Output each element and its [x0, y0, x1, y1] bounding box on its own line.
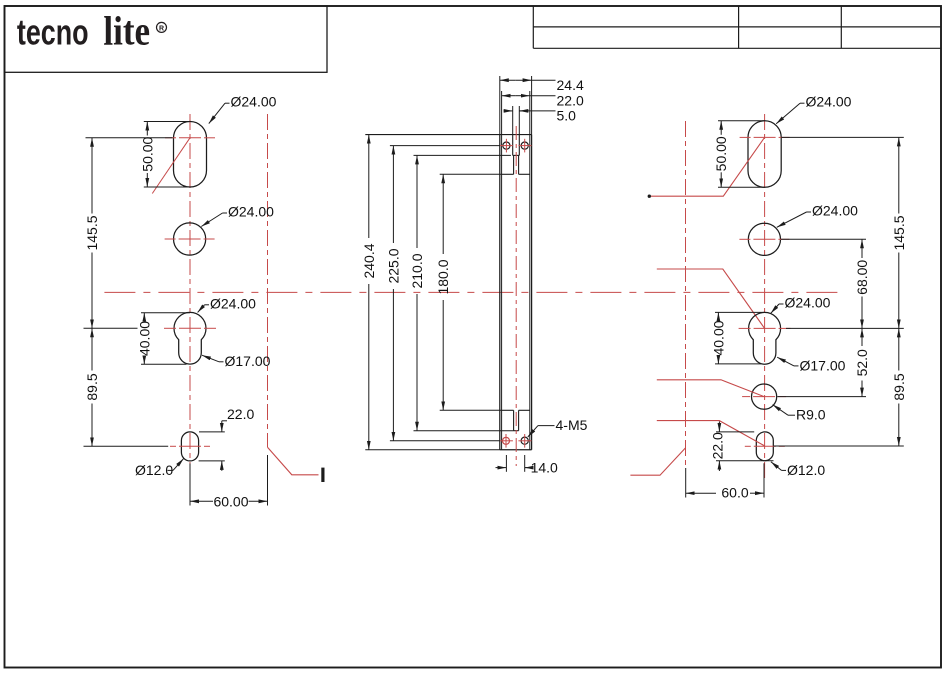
middle dim 240.4 line: [368, 135, 370, 238]
svg-text:Ø24.00: Ø24.00: [228, 204, 274, 220]
right dim 60.0 line: [686, 492, 716, 494]
middle M5 bottom centerlines: [500, 440, 513, 442]
right slot top centerline cross: [740, 136, 751, 138]
svg-text:145.5: 145.5: [84, 215, 100, 250]
left keyhole slot 24/17: [174, 312, 206, 364]
right keyhole slot 24/17: [749, 312, 781, 364]
right dim 50.00 extension lines: [718, 120, 765, 122]
left dim 145.5 line with arrows: [91, 138, 93, 214]
left keyhole centerline cross: [164, 327, 176, 329]
left dim 145.5 extension top: [86, 137, 173, 139]
logo title box: [5, 6, 328, 72]
left circle hole 24: [174, 223, 206, 255]
svg-text:89.5: 89.5: [891, 373, 907, 400]
middle view top slot: [512, 135, 514, 156]
middle dim 5.0 extension lines: [512, 106, 514, 135]
main horizontal centerline axis: [104, 291, 840, 293]
middle dim 180.0 extensions: [440, 173, 502, 175]
svg-text:4-M5: 4-M5: [556, 417, 588, 433]
svg-text:210.0: 210.0: [409, 253, 425, 288]
middle view top ledges: [502, 173, 514, 175]
right black dot: [648, 195, 651, 198]
svg-text:R9.0: R9.0: [796, 407, 826, 423]
svg-text:22.0: 22.0: [227, 406, 254, 422]
right dim 52.0 extension bottom: [777, 396, 866, 398]
left dim 50.00 line with arrows: [146, 122, 148, 136]
left dim 89.5 extension bottom: [84, 445, 169, 447]
middle dim 225.0 line: [392, 146, 394, 243]
left view vertical centerline: [189, 114, 191, 476]
right dim 52.0 line: [861, 328, 863, 346]
right slot hole top (obround 24x50): [748, 121, 781, 188]
left dim 89.5 line with arrows: [91, 328, 93, 370]
right dim 50.00 line: [720, 121, 722, 135]
right dim 60.0 extension lines: [685, 468, 687, 498]
left dim 40.00 extension lines: [141, 312, 190, 314]
left small slot centerline cross: [170, 445, 176, 447]
title block table: [532, 6, 534, 48]
right red leader polyline to R9: [657, 380, 764, 397]
right keyhole centerline cross: [739, 327, 751, 329]
svg-text:40.00: 40.00: [136, 321, 152, 356]
svg-text:Ø24.00: Ø24.00: [231, 94, 277, 110]
svg-text:22.0: 22.0: [557, 92, 584, 108]
right view auxiliary dashed centerline: [685, 121, 687, 466]
svg-text:50.00: 50.00: [713, 136, 729, 171]
left dim 60.00 extension lines: [189, 464, 191, 506]
right dim 40.00 extension lines: [715, 311, 765, 313]
left dim 50.00 extension lines: [144, 121, 190, 123]
left view auxiliary dashed centerline: [267, 114, 269, 447]
svg-text:40.00: 40.00: [710, 320, 726, 355]
right dim 145.5 line: [898, 137, 900, 213]
middle dim 240.4 bottom extension: [365, 449, 500, 451]
right small slot centerline cross: [745, 445, 751, 447]
right small slot 12x22: [756, 432, 773, 461]
left dim 40.00 line with arrows: [143, 313, 145, 319]
right dim 22.0 line: [718, 422, 720, 432]
middle dim 5.0 line: [504, 110, 513, 112]
left small slot 12x22: [181, 432, 198, 461]
right dim 145.5 extension mid: [786, 327, 904, 329]
middle dim 180.0 line: [442, 174, 444, 254]
left red diagonal leader to slot center: [152, 138, 190, 194]
svg-text:14.0: 14.0: [531, 460, 558, 476]
svg-text:lite: lite: [103, 9, 150, 54]
middle view outer profile: [499, 135, 501, 450]
right dim 89.5 extension bottom: [774, 445, 904, 447]
svg-text:180.0: 180.0: [435, 259, 451, 294]
left circle centerline cross: [165, 238, 176, 240]
middle M5 top centerlines: [500, 145, 513, 147]
middle M5 hole bottom-left (red): [503, 437, 510, 444]
right view vertical centerline: [764, 114, 766, 478]
right dim 89.5 line: [898, 328, 900, 370]
middle dim 225.0 extensions: [390, 145, 500, 147]
svg-text:68.00: 68.00: [854, 260, 870, 295]
middle view bottom ledges: [502, 409, 514, 411]
right dim 22.0 extension lines: [716, 431, 754, 433]
svg-text:R: R: [159, 25, 164, 32]
middle dim 14.0 extensions: [505, 455, 507, 472]
right circle centerline cross: [739, 238, 750, 240]
middle M5 hole top-left: [503, 142, 510, 149]
right dim 68.00 extension top: [781, 238, 866, 240]
right red corner polyline bottom-left: [630, 448, 685, 475]
svg-text:Ø17.00: Ø17.00: [225, 353, 271, 369]
middle view vertical centerline: [515, 126, 517, 466]
tecnolite logo text: [17, 9, 167, 54]
middle view inner walls: [501, 135, 503, 450]
svg-text:Ø24.00: Ø24.00: [806, 94, 852, 110]
middle dim 22.0 extension lines: [501, 91, 503, 135]
right red leader polyline to small slot: [657, 421, 765, 446]
middle dim 210.0 extensions: [414, 154, 511, 156]
svg-text:60.00: 60.00: [213, 493, 248, 509]
svg-text:Ø24.00: Ø24.00: [210, 296, 256, 312]
right dim 68.00 line: [861, 239, 863, 258]
left dim 89.5 extension keyhole: [84, 327, 138, 329]
middle M5 hole bottom-right: [521, 437, 528, 444]
svg-text:5.0: 5.0: [557, 108, 577, 124]
right red leader polyline to slot: [651, 137, 765, 196]
middle dim 14.0 line: [496, 467, 507, 469]
middle dim 22.0 line: [502, 95, 516, 97]
middle M5 hole top-right: [521, 142, 528, 149]
left section mark I tick: [321, 468, 324, 482]
svg-text:89.5: 89.5: [84, 373, 100, 400]
middle dim 24.4 line: [500, 79, 516, 81]
left slot top centerline cross: [165, 137, 176, 139]
left dim 60.00 line with arrows: [190, 500, 213, 502]
left section mark red polyline: [268, 447, 319, 475]
left dim 22.0 bracket: [222, 420, 227, 422]
right red leader polyline to keyhole: [657, 269, 765, 328]
svg-text:240.4: 240.4: [361, 243, 377, 278]
svg-text:225.0: 225.0: [385, 248, 401, 283]
middle view bottom slot: [513, 410, 515, 430]
svg-text:50.00: 50.00: [139, 136, 155, 171]
svg-text:Ø12.0: Ø12.0: [787, 462, 825, 478]
svg-text:Ø17.00: Ø17.00: [800, 357, 846, 373]
svg-text:Ø24.00: Ø24.00: [785, 295, 831, 311]
svg-text:24.4: 24.4: [557, 77, 584, 93]
svg-text:Ø24.00: Ø24.00: [812, 203, 858, 219]
right dim 40.00 line: [717, 312, 719, 318]
svg-text:52.0: 52.0: [854, 349, 870, 376]
middle view top face / 240.4 extension: [365, 134, 531, 136]
right circle hole 24: [748, 223, 780, 255]
middle dim 24.4 extension lines: [499, 76, 501, 135]
right R9 circle: [752, 384, 777, 409]
svg-text:60.0: 60.0: [721, 485, 748, 501]
right R9 centerline cross: [742, 396, 750, 398]
right dim 145.5 extension top: [781, 136, 904, 138]
svg-text:145.5: 145.5: [891, 215, 907, 250]
middle dim 210.0 line: [416, 155, 418, 248]
left slot hole top (obround 24x50): [174, 122, 207, 188]
left dim 22.0 extension lines: [199, 431, 225, 433]
svg-text:tecno: tecno: [17, 12, 89, 53]
svg-text:22.0: 22.0: [709, 432, 725, 459]
